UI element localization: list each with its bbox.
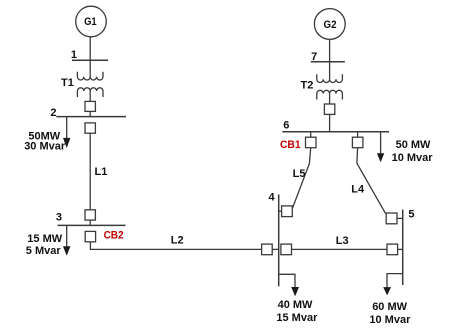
bus 1 [72, 59, 108, 61]
breaker L1 to bus 3 [85, 210, 95, 220]
svg-text:L5: L5 [293, 168, 306, 180]
svg-text:L2: L2 [171, 235, 184, 247]
arrow load bus 3 [63, 246, 70, 256]
load feeder at bus 3 [66, 225, 68, 246]
svg-text:2: 2 [50, 107, 56, 119]
svg-text:L3: L3 [336, 235, 349, 247]
breaker L2 at bus 4 [262, 244, 273, 255]
bus 2 [56, 116, 126, 118]
transformer T2 primary winding [317, 74, 343, 82]
transformer T1 secondary winding [77, 88, 103, 97]
svg-text:T2: T2 [301, 80, 314, 92]
breaker L5 at bus 4 [282, 206, 293, 217]
line L2 [90, 242, 261, 250]
arrow load bus 2 [63, 138, 70, 148]
wire G2 to bus 7 [329, 39, 331, 61]
svg-text:T1: T1 [61, 77, 74, 89]
wire breaker to bus 3 [89, 220, 91, 225]
svg-text:CB1: CB1 [280, 139, 301, 151]
arrow load bus 5 [383, 287, 391, 295]
svg-text:G1: G1 [84, 16, 97, 28]
wire L2 breaker to bus 4 [272, 248, 279, 250]
arrow load bus 6 [377, 153, 384, 162]
line L1 [89, 133, 91, 210]
wire bus 7 to T2 [329, 62, 331, 80]
wire T2 to breaker [329, 94, 331, 105]
stub bus 6 to CB1 [310, 132, 312, 138]
stub L4 breaker to bus 5 [397, 217, 403, 219]
generator G2 [314, 9, 345, 40]
wire bus 1 to T1 [89, 60, 91, 77]
breaker L4 at bus 6 [352, 137, 363, 148]
generator G1 [76, 6, 107, 37]
svg-text:15 Mvar: 15 Mvar [276, 312, 318, 324]
svg-text:3: 3 [56, 211, 62, 223]
load feeder at bus 5 [387, 274, 403, 288]
stub bus 4 to L5 breaker [279, 210, 282, 212]
wire T1 to breaker [89, 91, 91, 101]
stub bus 6 to L4 breaker [357, 132, 359, 138]
breaker CB1 [306, 137, 317, 148]
breaker bus 2 to L1 [85, 123, 95, 133]
svg-text:50 MW: 50 MW [396, 139, 431, 151]
wire L3 breaker to bus 5 [398, 248, 403, 250]
svg-text:10 Mvar: 10 Mvar [369, 314, 411, 326]
line L4 [357, 148, 386, 214]
svg-text:5: 5 [408, 208, 414, 220]
breaker CB2 [85, 231, 95, 241]
svg-text:L4: L4 [351, 184, 365, 196]
svg-text:4: 4 [268, 192, 275, 204]
bus 3 [58, 224, 126, 226]
svg-text:10 Mvar: 10 Mvar [392, 152, 434, 164]
svg-text:1: 1 [71, 49, 77, 61]
line L3 [292, 248, 388, 250]
load feeder at bus 2 [66, 117, 68, 139]
breaker L4 at bus 5 [386, 213, 397, 224]
breaker L3 at bus 4 [281, 244, 292, 255]
svg-text:6: 6 [283, 119, 289, 131]
svg-text:G2: G2 [324, 19, 337, 31]
arrow load bus 4 [291, 287, 299, 296]
bus 5 [402, 210, 404, 286]
svg-text:5 Mvar: 5 Mvar [26, 245, 62, 257]
breaker L3 at bus 5 [387, 244, 398, 255]
breaker square on T2 low side [324, 104, 334, 114]
load feeder at bus 6 [380, 132, 382, 154]
svg-text:30 Mvar: 30 Mvar [24, 140, 66, 152]
svg-text:40 MW: 40 MW [278, 299, 313, 311]
svg-text:7: 7 [311, 51, 317, 63]
load feeder at bus 4 [279, 274, 295, 287]
wire breaker to bus 2 [89, 111, 91, 116]
bus 4 [278, 195, 280, 287]
transformer T2 secondary winding [317, 90, 343, 99]
bus 7 [311, 61, 345, 63]
svg-text:60 MW: 60 MW [372, 301, 407, 313]
svg-text:L1: L1 [95, 166, 108, 178]
svg-text:CB2: CB2 [104, 230, 124, 242]
transformer T1 primary winding [77, 72, 103, 80]
wire G1 to bus 1 [89, 37, 91, 61]
bus 6 [282, 131, 389, 133]
svg-text:15 MW: 15 MW [27, 233, 62, 245]
line L5 [292, 148, 310, 209]
breaker square on T1 low side [85, 101, 95, 111]
wire breaker to bus 6 [329, 114, 331, 131]
